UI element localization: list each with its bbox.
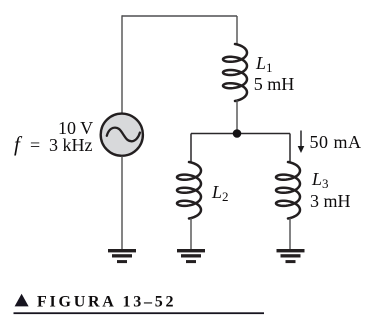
wire horizontal node bus: [191, 133, 290, 135]
svg-text:f=3 kHz: f=3 kHz: [14, 132, 93, 156]
svg-text:5 mH: 5 mH: [254, 74, 295, 94]
wire from L2 to ground: [190, 218, 192, 249]
wire from source bottom to ground: [121, 156, 123, 249]
wire from L3 to ground: [289, 218, 291, 249]
wire left vertical from top to source: [121, 15, 123, 113]
wire from node down-right to L3: [289, 134, 291, 164]
current arrow 50 mA pointing down: [298, 131, 305, 154]
svg-text:FIGURA 13–52: FIGURA 13–52: [37, 293, 176, 310]
ground below L2: [177, 249, 205, 263]
inductor L3: [276, 162, 300, 219]
wire from top to L1: [236, 16, 238, 45]
svg-text:L2: L2: [211, 182, 229, 204]
svg-text:50 mA: 50 mA: [310, 132, 362, 152]
svg-text:L1: L1: [255, 53, 273, 75]
node junction dot: [233, 129, 242, 138]
wire top horizontal from source to L1: [122, 15, 237, 17]
figure caption triangle: [15, 294, 29, 307]
figure caption underline: [14, 312, 265, 314]
inductor L1: [223, 44, 247, 101]
svg-text:3 mH: 3 mH: [310, 191, 351, 211]
ground below L3: [277, 249, 305, 263]
ground below source: [108, 249, 136, 263]
svg-text:L3: L3: [311, 169, 329, 191]
voltage source VS (AC sine source): [101, 114, 143, 156]
inductor L2: [177, 162, 201, 219]
wire from node down-left to L2: [190, 134, 192, 164]
wire from L1 to node: [236, 100, 238, 134]
